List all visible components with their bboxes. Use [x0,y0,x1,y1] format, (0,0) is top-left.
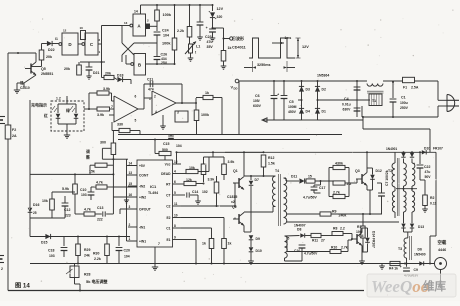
svg-text:R10: R10 [331,246,337,250]
svg-text:27: 27 [321,239,325,243]
svg-text:D11: D11 [291,175,297,179]
svg-text:D10: D10 [256,249,262,253]
svg-text:1k: 1k [202,242,206,246]
svg-text:R11: R11 [312,239,318,243]
svg-text:R29: R29 [84,248,90,252]
svg-text:绿: 绿 [66,108,70,113]
svg-text:D1: D1 [322,110,326,114]
svg-text:C10: C10 [80,188,86,192]
svg-text:T3: T3 [398,247,402,251]
svg-text:C1: C1 [401,96,406,100]
svg-text:D16: D16 [33,203,39,207]
svg-text:C5: C5 [289,100,294,104]
svg-text:WeeQoo: WeeQoo [371,277,429,296]
svg-text:10k: 10k [189,166,195,170]
svg-text:4: 4 [174,170,176,174]
svg-text:1k: 1k [205,91,209,95]
svg-text:5: 5 [135,119,137,123]
svg-text:C15: C15 [163,142,169,146]
svg-text:4446: 4446 [438,248,446,252]
svg-text:630V: 630V [253,104,262,108]
svg-text:Q5: Q5 [41,67,46,71]
svg-text:20k: 20k [105,72,111,76]
svg-text:-IN2: -IN2 [139,185,145,189]
svg-text:20k: 20k [46,55,52,59]
svg-text:充电指示: 充电指示 [31,102,47,108]
svg-text:25V: 25V [161,61,168,65]
svg-text:102: 102 [202,190,208,194]
svg-text:Vcc: Vcc [165,163,171,167]
svg-text:13: 13 [124,21,128,25]
svg-text:D15: D15 [41,241,47,245]
svg-text:维库: 维库 [423,279,446,293]
svg-text:D9: D9 [256,237,260,241]
svg-text:IC1: IC1 [150,184,157,189]
svg-text:12V: 12V [302,45,309,49]
svg-text:L1: L1 [196,45,200,49]
svg-text:+5V: +5V [139,164,146,168]
svg-text:1N4007: 1N4007 [294,224,306,228]
svg-text:C10: C10 [294,249,300,253]
svg-text:11: 11 [174,202,178,206]
svg-text:C1: C1 [166,227,170,231]
svg-text:450V: 450V [288,110,297,114]
svg-text:2.5A: 2.5A [411,86,419,90]
svg-text:100k: 100k [163,13,172,17]
svg-text:CT: CT [166,194,170,198]
svg-text:1.5k: 1.5k [268,162,275,166]
svg-text:-IN1: -IN1 [139,226,145,230]
svg-text:250V: 250V [400,106,409,110]
svg-text:C4: C4 [344,97,349,101]
svg-text:1: 1 [149,97,151,101]
svg-text:1k: 1k [228,242,232,246]
svg-text:5: 5 [174,191,176,195]
svg-text:3250ms: 3250ms [257,63,271,67]
svg-text:+: + [413,162,415,166]
svg-text:10: 10 [80,26,84,30]
svg-text:DEAD: DEAD [161,172,171,176]
svg-text:330: 330 [117,123,123,127]
svg-text:2: 2 [1,267,3,271]
svg-text:R28: R28 [84,273,90,277]
svg-text:5: 5 [288,237,290,241]
svg-text:14: 14 [134,10,138,14]
svg-text:C14: C14 [192,190,198,194]
svg-text:TL494: TL494 [148,191,158,195]
svg-text:C2610: C2610 [20,86,30,90]
svg-text:7: 7 [158,242,160,246]
svg-text:104: 104 [176,144,182,148]
svg-text:CONT: CONT [139,174,148,178]
svg-text:10: 10 [174,214,178,218]
svg-text:D3: D3 [306,88,310,92]
svg-text:14: 14 [129,162,133,166]
svg-text:R30: R30 [93,252,99,256]
svg-text:RT: RT [166,183,170,187]
svg-text:1.2: 1.2 [56,97,61,101]
svg-text:24k: 24k [84,254,90,258]
svg-text:474: 474 [148,88,154,92]
svg-text:0.11: 0.11 [430,202,437,206]
svg-text:9: 9 [174,236,176,240]
svg-text:2: 2 [129,223,131,227]
svg-text:T1: T1 [372,99,376,103]
svg-text:x2: x2 [231,200,235,204]
svg-text:C1815: C1815 [227,195,237,199]
svg-text:4.7k: 4.7k [84,208,91,212]
svg-text:104: 104 [124,255,130,259]
svg-text:DD: DD [234,87,238,91]
svg-text:0.01u: 0.01u [342,103,351,107]
svg-text:15: 15 [129,182,133,186]
svg-text:OPOUT: OPOUT [139,208,151,212]
svg-text:C18: C18 [48,249,54,253]
svg-text:300: 300 [100,141,106,145]
svg-text:1N5400: 1N5400 [414,253,426,257]
svg-text:T2: T2 [388,169,392,173]
svg-text:R12: R12 [268,156,274,160]
svg-text:100k: 100k [162,42,171,46]
svg-text:D12: D12 [376,169,382,173]
svg-text:3: 3 [129,205,131,209]
svg-text:2.2k: 2.2k [94,257,101,261]
svg-text:Q3: Q3 [355,169,360,173]
svg-text:2: 2 [154,95,156,99]
svg-text:103: 103 [81,193,87,197]
svg-text:2.7k: 2.7k [341,246,348,250]
svg-text:R2: R2 [430,196,435,200]
svg-text:50V: 50V [425,175,432,179]
svg-text:6: 6 [174,180,176,184]
svg-text:2.7k: 2.7k [333,191,340,195]
svg-text:320: 320 [217,15,223,19]
svg-text:500: 500 [162,148,168,152]
svg-text:F2: F2 [12,128,16,132]
svg-text:3.9k: 3.9k [97,113,104,117]
svg-text:3.9k: 3.9k [208,178,215,182]
svg-text:47u: 47u [425,170,431,174]
svg-text:100M: 100M [288,105,297,109]
svg-text:13: 13 [129,171,133,175]
svg-text:C17: C17 [319,186,325,190]
svg-text:7: 7 [111,105,113,109]
svg-text:3.9k: 3.9k [228,160,235,164]
svg-text:100u: 100u [400,101,408,105]
svg-text:+: + [400,265,402,269]
svg-text:D22: D22 [48,48,55,52]
svg-text:12k: 12k [186,178,192,182]
svg-text:12V: 12V [217,7,224,11]
svg-text:12: 12 [63,29,67,33]
svg-text:20k: 20k [64,67,70,71]
svg-text:2.2: 2.2 [340,227,345,231]
svg-text:+IN1: +IN1 [139,240,146,244]
svg-text:T4: T4 [275,169,279,173]
svg-text:2N5551: 2N5551 [41,72,53,76]
svg-text:47u: 47u [207,40,213,44]
svg-text:FR107: FR107 [433,147,443,151]
svg-text:D8: D8 [297,228,301,232]
svg-text:1k: 1k [228,46,232,50]
svg-text:2A: 2A [12,134,17,138]
svg-text:+: + [206,26,208,30]
svg-text:4.7u/50V: 4.7u/50V [303,196,317,200]
svg-text:E1: E1 [166,238,170,242]
svg-text:100k: 100k [201,113,209,117]
svg-text:35V: 35V [207,45,214,49]
svg-text:6: 6 [135,95,137,99]
svg-text:4: 4 [155,110,157,114]
svg-text:红: 红 [44,113,48,118]
svg-text:D14 FR107: D14 FR107 [372,231,376,248]
svg-text:15: 15 [308,175,312,179]
svg-text:C11: C11 [147,78,153,82]
svg-text:D21: D21 [93,71,99,75]
svg-text:8: 8 [174,224,176,228]
svg-text:E2: E2 [166,216,170,220]
svg-text:C20: C20 [124,249,130,253]
svg-text:5.9k: 5.9k [62,187,69,191]
svg-text:图 14: 图 14 [15,282,30,290]
svg-text:105/: 105/ [253,99,260,103]
svg-text:C12: C12 [64,208,70,212]
svg-text:C24: C24 [162,29,169,33]
svg-text:5k 电压调整: 5k 电压调整 [86,278,108,284]
svg-text:104: 104 [163,34,169,38]
svg-text:D10: D10 [424,147,430,151]
svg-text:+: + [277,93,279,97]
svg-text:R9: R9 [332,210,337,214]
svg-text:D6: D6 [418,248,422,252]
svg-text:空载: 空载 [438,239,447,246]
svg-text:C13: C13 [97,206,103,210]
svg-text:D2: D2 [322,88,326,92]
svg-text:C9: C9 [414,268,418,272]
svg-text:整: 整 [85,155,90,160]
svg-text:C6: C6 [255,94,260,98]
svg-text:C22: C22 [424,165,430,169]
svg-text:D7: D7 [255,178,259,182]
svg-text:2.2k: 2.2k [177,29,184,33]
svg-text:I1: I1 [55,37,58,41]
svg-text:R4 1k: R4 1k [389,267,398,271]
svg-text:103: 103 [49,254,55,258]
svg-text:630V: 630V [343,108,352,112]
svg-text:①波形: ①波形 [232,35,244,41]
svg-text:12: 12 [174,160,178,164]
svg-text:C2: C2 [166,205,170,209]
svg-text:CD4011: CD4011 [232,46,246,50]
svg-text:+IN2: +IN2 [139,196,146,200]
svg-text:1ms: 1ms [285,36,292,40]
svg-text:D18: D18 [117,74,123,78]
svg-text:Q4: Q4 [359,234,364,238]
svg-text:4.7k: 4.7k [96,181,103,185]
svg-text:1N4001: 1N4001 [386,147,397,151]
svg-text:Q1: Q1 [233,169,238,173]
svg-text:16: 16 [129,193,133,197]
svg-text:调: 调 [86,149,90,154]
svg-text:1N5364: 1N5364 [317,74,329,78]
svg-text:C26: C26 [161,53,168,57]
svg-text:4.7u/50V: 4.7u/50V [304,252,318,256]
svg-text:223: 223 [65,214,71,218]
svg-text:3.9k: 3.9k [103,87,110,91]
svg-text:D4: D4 [306,110,310,114]
svg-text:D13: D13 [418,225,424,229]
svg-text:25: 25 [33,211,37,215]
svg-text:10k: 10k [42,199,48,203]
svg-text:222: 222 [97,218,103,222]
svg-text:430k: 430k [335,162,343,166]
svg-text:R8: R8 [333,227,337,231]
svg-text:F1: F1 [403,86,407,90]
svg-text:1: 1 [129,237,131,241]
